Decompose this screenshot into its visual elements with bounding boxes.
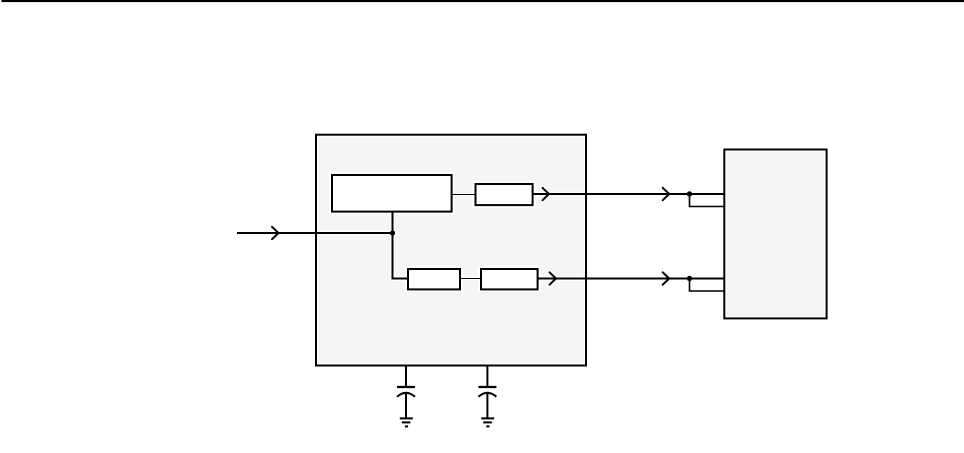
node (junction dot, top pin pair) <box>687 191 692 196</box>
node (junction dot on input line) <box>390 230 395 235</box>
buffer block A4 <box>478 266 541 292</box>
wire (bottom output from A4 to U2) <box>538 272 724 284</box>
divider block A3 <box>405 266 463 292</box>
wire (top pin jog into U2) <box>690 194 726 207</box>
ground (below C2) <box>481 418 494 426</box>
device U2 (load box, fill) <box>724 150 826 319</box>
wire (A3 to A4 connector) <box>460 278 481 280</box>
capacitor C2 <box>478 365 496 419</box>
capacitor C1 <box>397 365 415 419</box>
node (junction dot, bottom pin pair) <box>687 276 692 281</box>
wire (A1 to A2 connector) <box>453 194 475 196</box>
wire casings over gray fill <box>237 188 723 285</box>
oscillator block A1 <box>329 172 455 215</box>
buffer block A2 <box>473 181 536 208</box>
module U1 (border) <box>316 135 586 366</box>
ground (below C1) <box>400 418 413 426</box>
wire (bottom pin jog into U2) <box>690 279 726 292</box>
wire (trunk from A1 down to lower branch) <box>393 212 409 279</box>
module U1 (clock generator box, fill) <box>316 135 586 366</box>
device U2 (border) <box>724 150 826 319</box>
wire (input line into U1) <box>237 227 393 239</box>
wire (top output from A2 to U2) <box>533 188 724 200</box>
